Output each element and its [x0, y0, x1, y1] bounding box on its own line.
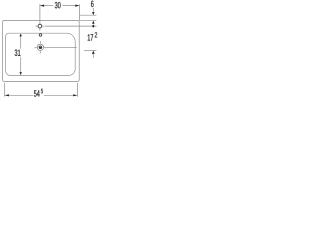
washbasin inner bowl	[6, 33, 76, 75]
dimension 17 lower up arrow	[92, 51, 95, 54]
dimension 31 down arrow	[20, 72, 22, 75]
dimension 31 text	[15, 50, 18, 56]
dimension 54.5 text	[34, 90, 37, 96]
dimension 17 superscript 2	[95, 32, 97, 37]
dimension 54.5 right arrow	[73, 94, 77, 96]
centerline diamond marker	[92, 25, 95, 28]
tap hole cross ticks	[39, 28, 41, 30]
dimension 6 extension line	[80, 14, 97, 16]
dimension 17 lower extension line	[84, 49, 96, 51]
drain outer circle	[37, 44, 43, 50]
dimension 31 line upper	[20, 36, 22, 48]
dimension 54.5 left arrow	[5, 94, 9, 96]
drain centerline to right	[46, 46, 77, 48]
basin top edge extension	[79, 20, 96, 22]
drain cross ticks	[39, 41, 41, 43]
dimension 30 line	[40, 5, 53, 7]
dimension 30 text	[55, 2, 58, 8]
dimension 6 leader vertical	[92, 8, 94, 13]
dimension 30 right arrow	[75, 5, 79, 7]
dimension 31 line lower	[20, 57, 22, 72]
dimension 17 lower leader vertical	[92, 54, 94, 58]
tap hole centerline horizontal	[45, 25, 96, 27]
drain inner ring	[39, 45, 43, 49]
tap hole centerline vertical	[39, 4, 41, 24]
dimension 54.5 superscript 5	[41, 89, 43, 94]
dimension 54.5 line	[5, 94, 33, 96]
dimension 30 right extension line	[78, 4, 80, 20]
dimension 54.5 left extension line	[4, 83, 6, 97]
dimension 31 up arrow	[20, 33, 22, 36]
tap hole circle	[38, 24, 42, 28]
dimension 17 text	[88, 34, 90, 40]
dimension 6 text	[91, 1, 94, 7]
dimension 6 down arrow	[92, 12, 95, 15]
dimension 54.5 right extension line	[76, 83, 78, 97]
dimension 30 left arrow	[40, 5, 44, 7]
overflow slot	[39, 34, 42, 37]
washbasin outer outline	[3, 20, 80, 81]
dimension 6 up arrow	[92, 21, 95, 24]
